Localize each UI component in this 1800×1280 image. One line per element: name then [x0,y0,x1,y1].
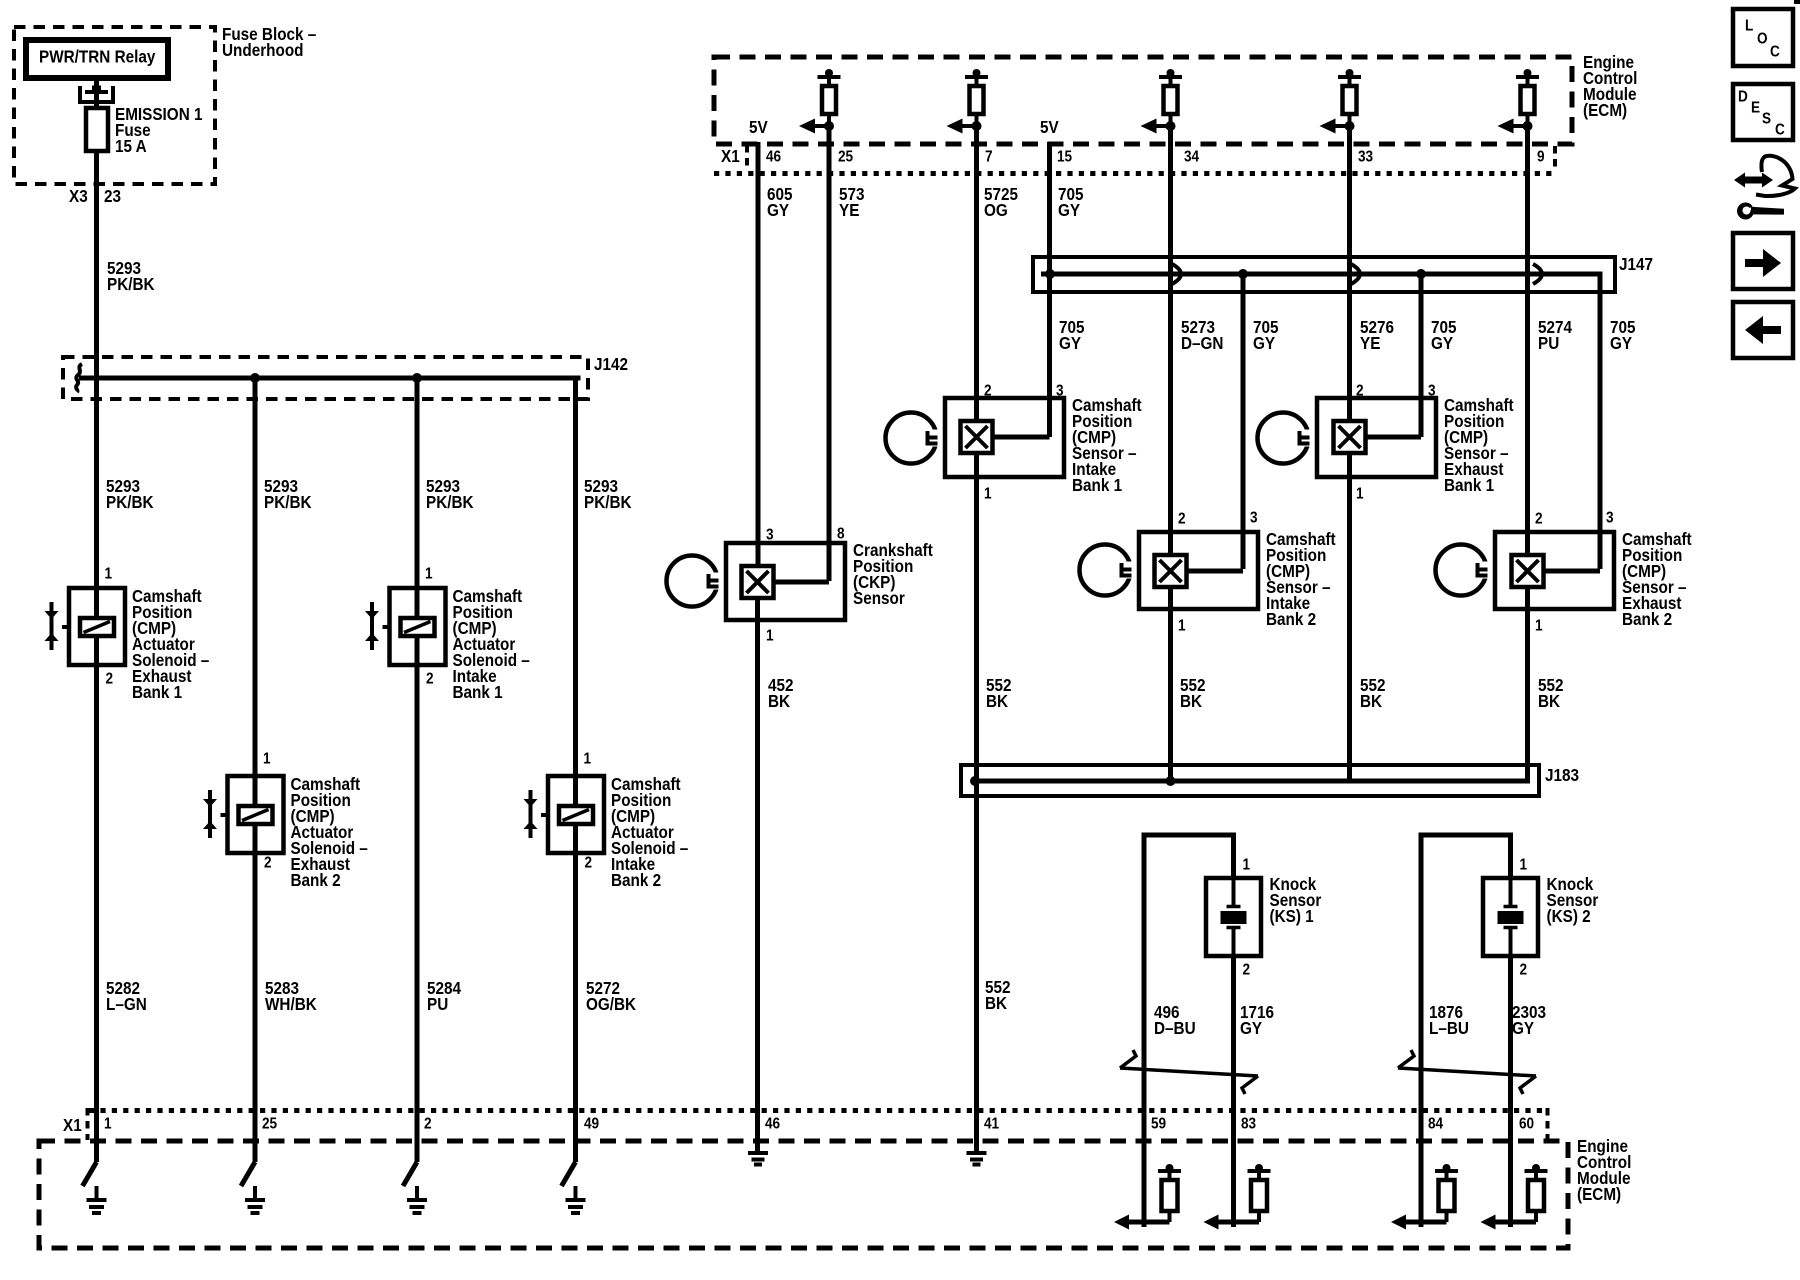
label 5V (pin 46) [749,117,768,137]
pin 2 [1356,383,1364,400]
page corner mark [1794,0,1800,4]
wire 573 YE: ECM pin 25 to CKP pin 8 [827,128,832,581]
wire: Knock Sensor (KS) 1 pin 2 [1231,956,1236,1227]
resistor (ECM internal pull-up) [1498,69,1540,134]
reluctor wheel [1080,545,1137,596]
svg-text:C: C [1775,122,1785,139]
svg-text:1: 1 [1535,618,1543,635]
svg-text:1: 1 [584,751,592,768]
label: CMP sensor - intake bank 1 [1072,395,1142,495]
pin 2 [1243,962,1251,979]
svg-text:15: 15 [1057,149,1072,166]
label wire 5293 PK/BK [107,258,155,294]
svg-text:34: 34 [1184,149,1200,166]
label: CMP actuator solenoid - intake bank 1 [453,586,530,702]
label J147 [1619,254,1653,274]
resistor (ECM internal) with signal arrow [1204,1164,1271,1230]
bus arrow chevron [1351,264,1360,284]
svg-text:84: 84 [1428,1116,1444,1133]
svg-text:1: 1 [1520,857,1528,874]
connector X3 label [69,186,88,206]
junction dot [250,373,260,383]
junction dot [1238,269,1248,279]
label wire 5293 PK/BK col4 [584,476,632,512]
svg-text:E: E [1751,100,1760,117]
label wire 2303 GY [1512,1002,1546,1038]
label: CMP actuator solenoid - exhaust bank 2 [291,774,368,890]
wire 5274 PU: ECM pin 9 to CMP exhaust bank 2 pin 2 [1525,128,1530,553]
reluctor wheel [886,413,943,464]
signal arrow [1157,124,1171,128]
wire 5282 L-GN to ECM pin 1 [94,636,99,1162]
label wire 552 BK [986,675,1012,711]
solenoid: CMP actuator solenoid - exhaust bank 1 [45,588,126,665]
pin 83 [1241,1116,1256,1133]
svg-text:1: 1 [1178,618,1186,635]
svg-text:605GY: 605GY [767,184,793,220]
svg-text:2: 2 [106,671,114,688]
signal arrow [1514,124,1528,128]
connector X1 top label [721,146,740,166]
label wire 5276 YE [1360,317,1394,353]
junction J142 [63,357,588,399]
pin 60 [1519,1116,1534,1133]
twisted pair symbol [1120,1050,1258,1094]
ground [748,1153,768,1165]
ECM top connector dotted line [714,171,1553,176]
svg-text:9: 9 [1537,149,1545,166]
pin 2 [1178,511,1186,528]
connector tick right [1546,1108,1550,1140]
wire 705 GY: J147 to CMP exhaust bank 1 pin 3 [1419,274,1424,437]
svg-text:60: 60 [1519,1116,1534,1133]
label: EMISSION 1 Fuse 15 A [115,104,202,156]
wire 5272 OG/BK to ECM pin 49 [573,824,578,1162]
wire 5276 YE: ECM pin 33 to CMP exhaust bank 1 pin 2 [1347,128,1352,421]
resistor (ECM internal pull-up) [1320,69,1362,134]
svg-text:2: 2 [424,1116,432,1133]
svg-text:J183: J183 [1545,765,1579,785]
pin 46 [765,1116,780,1133]
pin 3 [837,526,845,543]
pin 1 [104,1116,112,1133]
pin 2 [424,1116,432,1133]
icon: back arrow box [1733,302,1793,358]
svg-text:1: 1 [263,751,271,768]
resistor (ECM internal) with signal arrow [1391,1164,1458,1230]
fuse block underhood dashed box [14,27,215,184]
icon: DESC box [1733,84,1793,140]
svg-text:1: 1 [984,486,992,503]
svg-text:705GY: 705GY [1253,317,1279,353]
label wire 552 BK [1538,675,1564,711]
bus arrow chevron [1533,264,1542,284]
label wire 552 BK [1360,675,1386,711]
ECM bottom connector dotted line [89,1108,1547,1113]
wire 5725 OG: ECM pin 7 to CMP intake bank 1 pin 2 [974,128,979,421]
svg-text:5V: 5V [1040,117,1059,137]
svg-text:3: 3 [1428,383,1436,400]
reluctor wheel [667,556,724,607]
label wire 573 YE [839,184,865,220]
knock sensor 1: Knock Sensor (KS) 1 [1206,878,1261,956]
wire 605 GY: ECM pin 46 to CKP pin 3 [756,142,761,565]
pin 2 [585,855,593,872]
wire branch 5293 to solenoid intake bank 2 (bus right bend) [573,376,578,807]
sensor: CMP sensor - intake bank 2 [1139,532,1258,609]
signal arrow [1336,124,1350,128]
svg-text:452BK: 452BK [768,675,794,711]
icon: forward arrow box [1733,233,1793,289]
wire 552 BK: CMP intake bank 1 pin 1 through J183 to ECM pin 41 [974,453,979,1152]
svg-text:705GY: 705GY [1058,184,1084,220]
label: Crankshaft Position (CKP) Sensor [853,540,933,608]
svg-text:3: 3 [1056,383,1064,400]
svg-text:41: 41 [984,1116,999,1133]
svg-text:1: 1 [1356,486,1364,503]
svg-text:1876L–BU: 1876L–BU [1429,1002,1469,1038]
svg-text:33: 33 [1358,149,1373,166]
label wire 5283 WH/BK [265,978,317,1014]
pin 46 [766,149,781,166]
svg-text:2: 2 [1535,511,1543,528]
wire: Knock Sensor (KS) 2 pin 2 [1508,956,1513,1227]
label: Knock Sensor (KS) 1 [1270,874,1322,926]
junction dot [412,373,422,383]
svg-text:8: 8 [837,526,845,543]
sensor: Crankshaft Position (CKP) Sensor [726,543,845,620]
reluctor wheel [1436,545,1493,596]
svg-text:X1: X1 [63,1115,82,1135]
pin 49 [584,1116,599,1133]
svg-text:705GY: 705GY [1431,317,1457,353]
svg-text:552BK: 552BK [1538,675,1564,711]
label: Fuse Block - Underhood [222,24,316,60]
pin 41 [984,1116,999,1133]
svg-text:83: 83 [1241,1116,1256,1133]
svg-text:2: 2 [1178,511,1186,528]
wire branch 5293 to solenoid intake bank 1 [415,378,420,618]
pin 25 [262,1116,277,1133]
ECM bottom dashed box [39,1141,1568,1248]
knock sensor 2: Knock Sensor (KS) 2 [1483,878,1538,956]
wire 5284 PU to ECM pin 2 [415,636,420,1162]
solenoid: CMP actuator solenoid - intake bank 2 [524,776,605,853]
label wire 705 GY [1253,317,1279,353]
svg-text:S: S [1762,111,1771,128]
wire: relay to fuse and down to X3 pin 23 [94,75,99,618]
icon: component view (double arrow, outline, wrench) [1734,156,1795,220]
pin 33 [1358,149,1373,166]
pin 34 [1184,149,1200,166]
ground [83,1162,107,1213]
label: Knock Sensor (KS) 2 [1547,874,1599,926]
sensor: CMP sensor - exhaust bank 2 [1495,532,1614,609]
junction dot [1166,776,1176,786]
pin 1 [984,486,992,503]
label X1 bottom [63,1115,82,1135]
svg-text:3: 3 [766,527,774,544]
solenoid: CMP actuator solenoid - intake bank 1 [365,588,446,665]
connector tick left [86,1108,90,1140]
label wire 705 GY [1431,317,1457,353]
signal arrow [815,124,829,128]
label wire 705 GY [1610,317,1636,353]
svg-text:3: 3 [1250,510,1258,527]
pin 1 [1243,857,1251,874]
svg-text:C: C [1770,44,1780,61]
pin 2 [766,527,774,544]
pin 25 [838,149,853,166]
svg-text:552BK: 552BK [985,977,1011,1013]
pin 59 [1151,1116,1166,1133]
svg-text:X1: X1 [721,146,740,166]
icon: LOC box [1733,9,1793,66]
pin 3 [1606,510,1614,527]
pin 1 [1520,857,1528,874]
fuse EMISSION 1 15 A [80,86,113,152]
svg-text:D: D [1738,89,1748,106]
sensor: CMP sensor - intake bank 1 [945,398,1064,477]
svg-text:46: 46 [766,149,781,166]
relay: PWR/TRN Relay [26,40,168,78]
wire 5273 D-GN: ECM pin 34 to CMP intake bank 2 pin 2 [1168,128,1173,553]
pin 7 [985,149,993,166]
pin 1 [1535,618,1543,635]
label wire 5284 PU [427,978,462,1014]
svg-text:Fuse Block –Underhood: Fuse Block –Underhood [222,24,316,60]
bus arrow chevron [1172,264,1181,284]
connector tick top [745,145,749,171]
svg-text:L: L [1745,18,1753,35]
pin 2 [106,671,114,688]
signal arrow [963,124,977,128]
pin 23 [104,186,121,206]
junction J183 [961,765,1539,796]
wire 5283 WH/BK to ECM pin 25 [253,824,258,1162]
svg-text:2: 2 [264,855,272,872]
svg-text:23: 23 [104,186,121,206]
ECM top dashed box [714,57,1572,144]
svg-text:2: 2 [1520,962,1528,979]
reluctor wheel [1258,413,1315,464]
wire 452 BK: CKP pin 1 to ECM pin 46 [755,597,760,1152]
label wire 552 BK (J183 to pin 41) [985,977,1011,1013]
label: CMP sensor - exhaust bank 2 [1622,529,1692,629]
label wire 5274 PU [1538,317,1573,353]
wire 552 BK: CMP exhaust bank 1 pin 1 to J183 [1347,453,1352,781]
pin 1 [263,751,271,768]
svg-text:1: 1 [766,628,774,645]
svg-text:1: 1 [104,1116,112,1133]
svg-text:705GY: 705GY [1059,317,1085,353]
label wire 496 D-BU [1154,1002,1196,1038]
label: CMP sensor - intake bank 2 [1266,529,1336,629]
label: CMP sensor - exhaust bank 1 [1444,395,1514,495]
pin 3 [1428,383,1436,400]
sensor: CMP sensor - exhaust bank 1 [1317,398,1436,477]
pin 2 [984,383,992,400]
pin 2 [1535,511,1543,528]
label wire 1716 GY [1240,1002,1274,1038]
svg-text:2: 2 [984,383,992,400]
solenoid: CMP actuator solenoid - exhaust bank 2 [203,776,284,853]
label wire 5273 D-GN [1181,317,1223,353]
label J142 [594,354,628,374]
pigtail at left end of J142 bus [76,364,82,392]
resistor (ECM internal) with signal arrow [1481,1164,1548,1230]
wire branch 5293 to solenoid exhaust bank 2 [253,378,258,806]
resistor (ECM internal pull-up) [799,69,841,134]
label wire 5293 PK/BK col1 [106,476,154,512]
junction dot [1416,269,1426,279]
connector tick top right [1553,146,1557,171]
ground [562,1162,586,1213]
pin 3 [1250,510,1258,527]
svg-text:2: 2 [426,671,434,688]
svg-text:2: 2 [1243,962,1251,979]
svg-text:5V: 5V [749,117,768,137]
wire 705 GY: ECM pin 15 through J147 to CMP intake bank 1 pin 3 [1047,142,1052,437]
label 5V (pin 15) [1040,117,1059,137]
svg-text:X3: X3 [69,186,88,206]
label: CMP actuator solenoid - exhaust bank 1 [132,586,209,702]
pin 15 [1057,149,1072,166]
pin 9 [1537,149,1545,166]
svg-text:705GY: 705GY [1610,317,1636,353]
pin 1 [1178,618,1186,635]
junction dot (705 GY feed) [1045,269,1055,279]
label wire 452 BK [768,675,794,711]
label wire 705 GY [1059,317,1085,353]
wire 552 BK: CMP exhaust bank 2 pin 1 to J183 [1525,585,1530,781]
wire 552 BK: CMP intake bank 2 pin 1 to J183 [1168,585,1173,781]
svg-text:49: 49 [584,1116,599,1133]
pin 1 [766,628,774,645]
label wire 552 BK [1180,675,1206,711]
label wire 5293 PK/BK col3 [426,476,474,512]
svg-text:1: 1 [105,566,113,583]
ground [403,1162,427,1213]
pin 2 [426,671,434,688]
pin 1 [584,751,592,768]
svg-text:25: 25 [262,1116,277,1133]
label J183 [1545,765,1579,785]
label wire 5293 PK/BK col2 [264,476,312,512]
svg-text:25: 25 [838,149,853,166]
pin 3 [1056,383,1064,400]
svg-text:552BK: 552BK [1360,675,1386,711]
label wire 5725 OG [984,184,1018,220]
label wire 705 GY (pin 15) [1058,184,1084,220]
svg-text:2: 2 [585,855,593,872]
label wire 5282 L-GN [106,978,147,1014]
pin 2 [1520,962,1528,979]
svg-text:2: 2 [1356,383,1364,400]
pin 1 [1356,486,1364,503]
svg-text:46: 46 [765,1116,780,1133]
svg-text:59: 59 [1151,1116,1166,1133]
wire: Knock Sensor (KS) 1 pin 1 loop [1144,835,1234,1227]
svg-text:J147: J147 [1619,254,1653,274]
ground [241,1162,265,1213]
resistor (ECM internal pull-up) [1141,69,1183,134]
label: Engine Control Module (ECM) top [1583,52,1637,120]
pin 1 [425,566,433,583]
svg-text:1: 1 [1243,857,1251,874]
junction dot [970,776,980,786]
svg-text:552BK: 552BK [986,675,1012,711]
svg-text:O: O [1757,31,1768,48]
svg-text:552BK: 552BK [1180,675,1206,711]
ground [967,1153,987,1165]
svg-text:3: 3 [1606,510,1614,527]
label: CMP actuator solenoid - intake bank 2 [611,774,688,890]
pin 84 [1428,1116,1444,1133]
svg-text:7: 7 [985,149,993,166]
label wire 605 GY [767,184,793,220]
pin 2 [264,855,272,872]
wire 705 GY: J147 to CMP intake bank 2 pin 3 [1241,274,1246,569]
pin 1 [105,566,113,583]
label: Engine Control Module (ECM) bottom [1577,1136,1631,1204]
svg-text:J142: J142 [594,354,628,374]
resistor (ECM internal) with signal arrow [1114,1164,1181,1230]
label wire 5272 OG/BK [586,978,636,1014]
svg-text:PWR/TRN Relay: PWR/TRN Relay [39,46,156,66]
resistor (ECM internal pull-up) [947,69,989,134]
junction J147 [1033,257,1615,569]
wire: Knock Sensor (KS) 2 pin 1 loop [1421,835,1511,1227]
label wire 1876 L-BU [1429,1002,1469,1038]
svg-text:1: 1 [425,566,433,583]
twisted pair symbol [1398,1050,1536,1094]
